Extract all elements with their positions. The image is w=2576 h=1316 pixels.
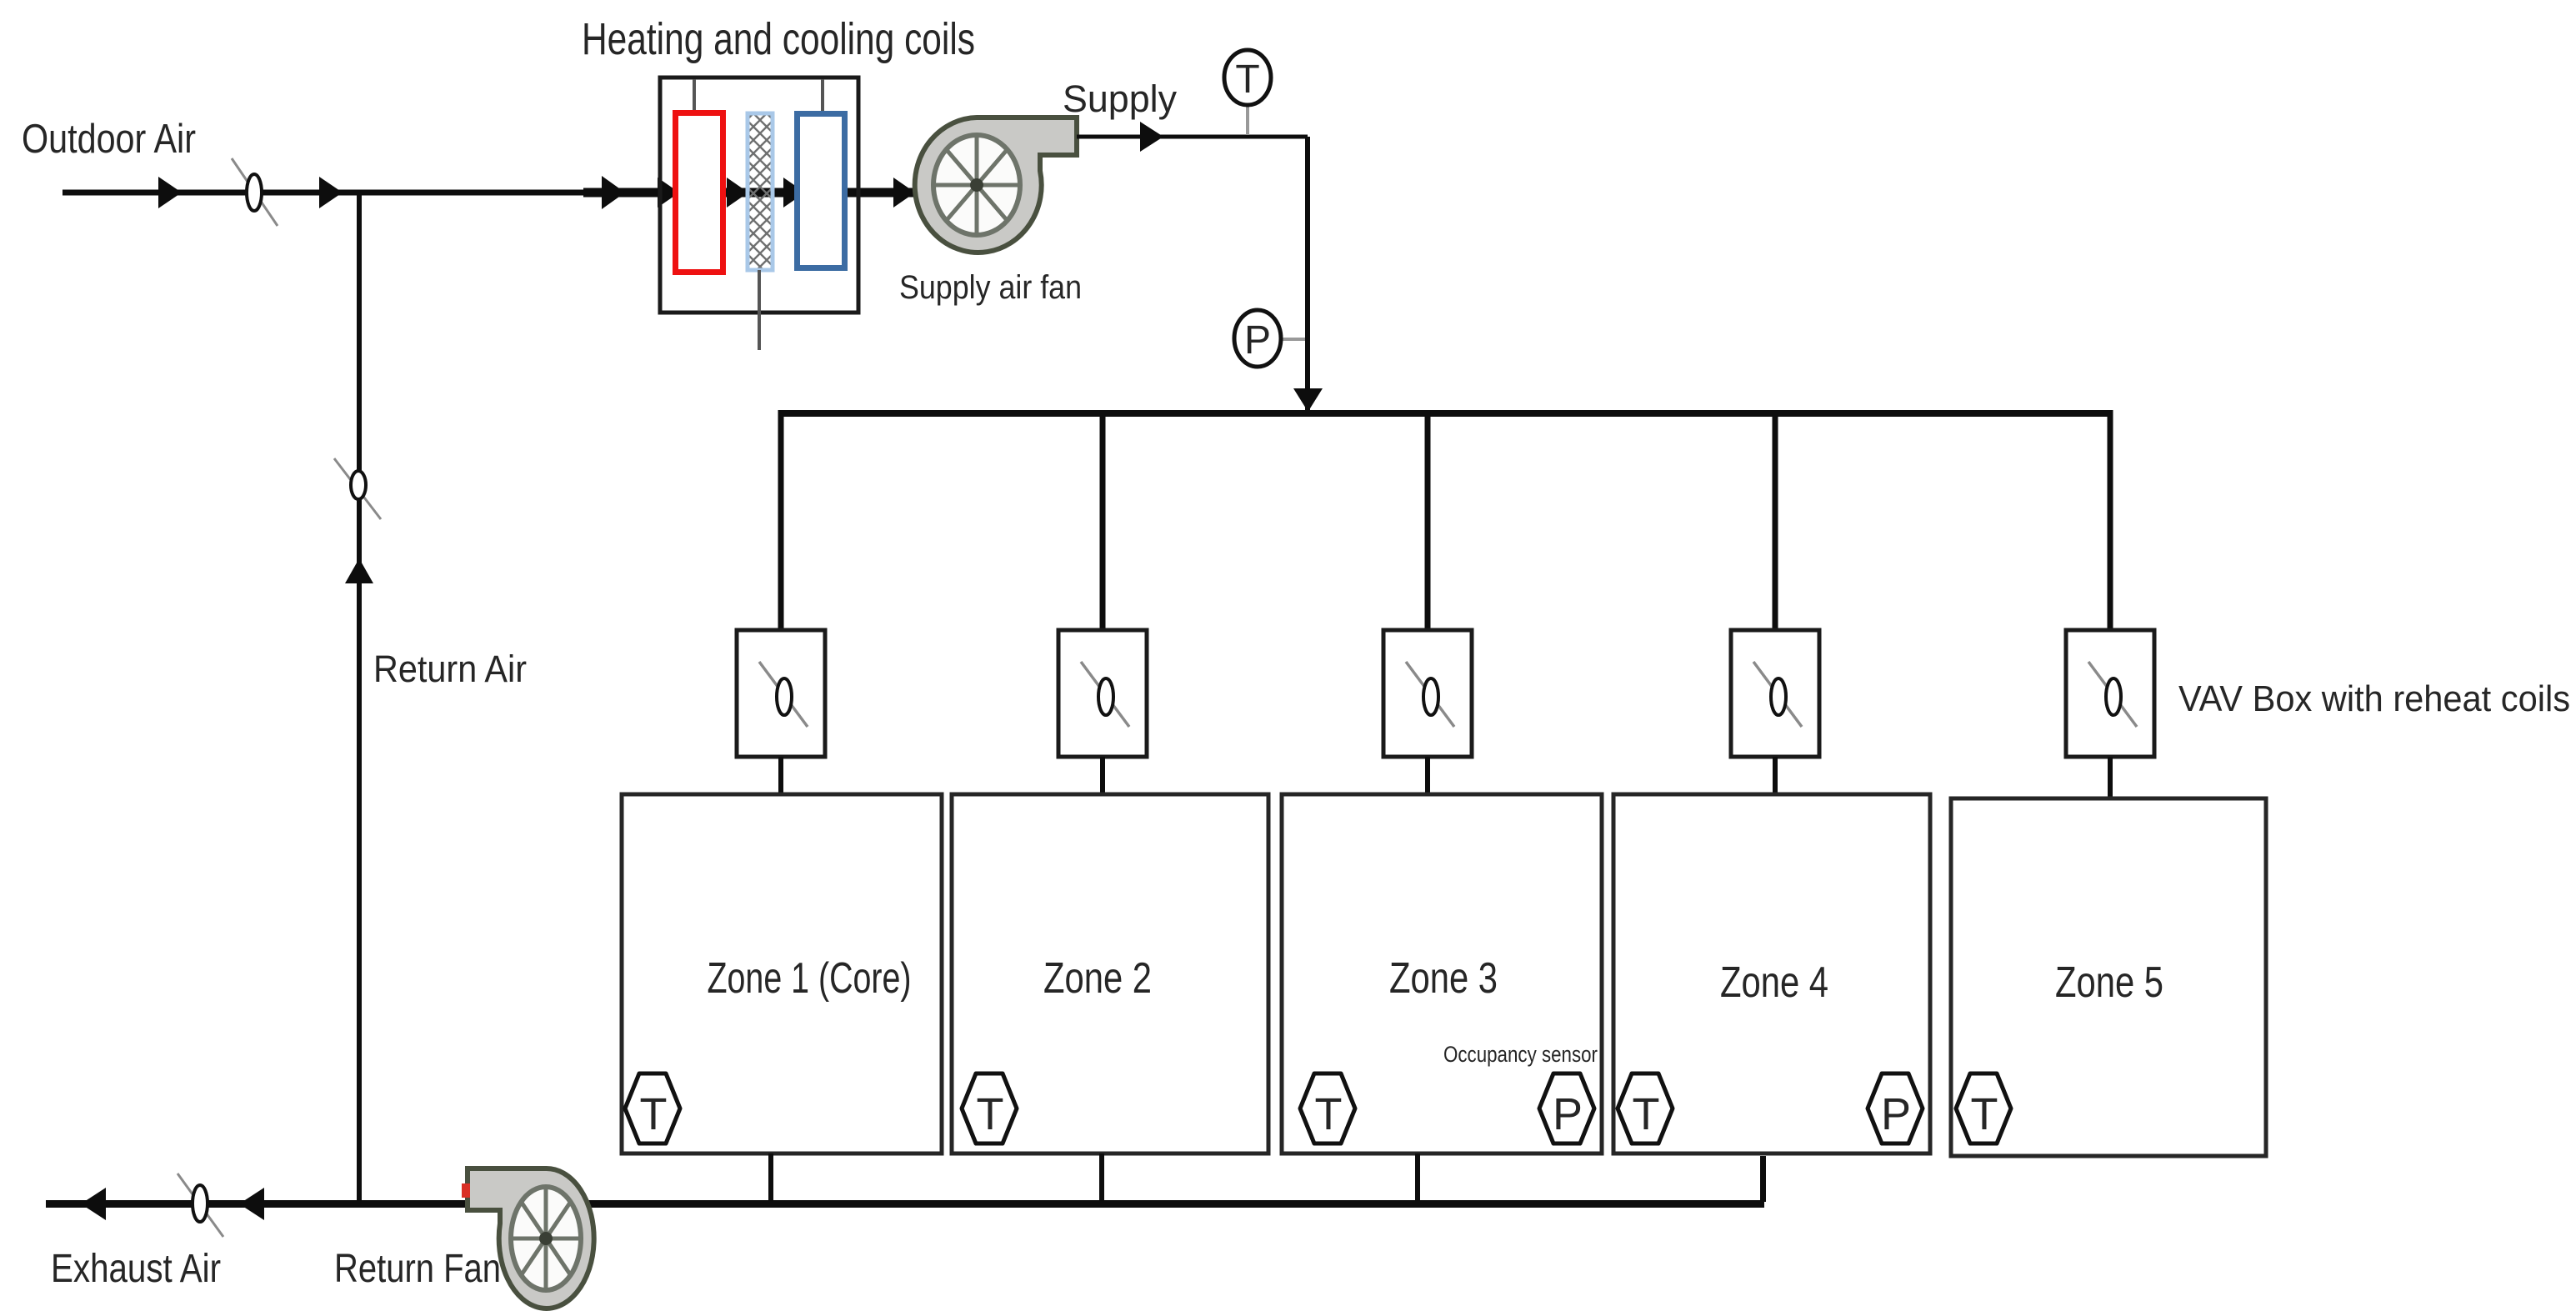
VAV box 5 bbox=[2066, 630, 2154, 757]
P sensor zone3 (hexagon) bbox=[1539, 1073, 1594, 1143]
svg-text:T: T bbox=[1971, 1089, 1998, 1139]
wire VAV2 to zone2 bbox=[1100, 757, 1105, 795]
pipe stub above heating coil bbox=[693, 79, 696, 111]
arrowhead duct 2 (inside box) bbox=[658, 178, 679, 208]
zone 5 box bbox=[1951, 798, 2266, 1156]
arrowhead supply bbox=[1140, 122, 1163, 152]
svg-text:Return Fan: Return Fan bbox=[334, 1247, 501, 1291]
damper exhaust bbox=[178, 1173, 223, 1237]
arrowhead duct 1 bbox=[602, 176, 625, 209]
VAV box 1 bbox=[737, 630, 825, 757]
svg-text:Occupancy sensor: Occupancy sensor bbox=[1443, 1042, 1598, 1067]
svg-text:Zone 1 (Core): Zone 1 (Core) bbox=[708, 954, 912, 1003]
svg-text:Exhaust Air: Exhaust Air bbox=[51, 1247, 221, 1291]
VAV box 3 bbox=[1383, 630, 1472, 757]
wire drop to VAV3 bbox=[1425, 417, 1431, 630]
wire duct thick into coil box bbox=[583, 188, 921, 198]
wire zone2 return drop bbox=[1099, 1153, 1104, 1202]
return fan wheel bbox=[511, 1187, 581, 1290]
T sensor zone2 (hexagon) bbox=[962, 1073, 1017, 1143]
arrowhead into header bbox=[1293, 388, 1323, 412]
svg-text:T: T bbox=[1235, 58, 1259, 102]
wire drop to VAV1 bbox=[778, 410, 784, 630]
zone 3 box bbox=[1282, 794, 1602, 1153]
return fan body bbox=[468, 1168, 594, 1308]
svg-text:Zone 3: Zone 3 bbox=[1389, 954, 1498, 1003]
filter (hatched) bbox=[748, 113, 773, 270]
wire supply line from fan bbox=[1077, 135, 1308, 139]
wire zone4 return drop bbox=[1760, 1156, 1766, 1202]
T sensor (supply) bbox=[1246, 105, 1249, 135]
pipe stub above cooling coil bbox=[821, 79, 824, 111]
arrowhead duct 3 (before filter) bbox=[727, 178, 748, 208]
wire return-air vertical bbox=[357, 193, 362, 1203]
wire outdoor-air horizontal bbox=[63, 190, 596, 196]
AHU coil box U1 bbox=[660, 78, 858, 313]
pipe stub below filter bbox=[758, 270, 761, 350]
zone 4 box bbox=[1613, 794, 1930, 1153]
wire drop to VAV2 bbox=[1100, 417, 1106, 630]
damper return-air bbox=[334, 458, 381, 519]
T sensor zone5 (hexagon) bbox=[1956, 1073, 2011, 1143]
heating coil (red) bbox=[676, 113, 723, 273]
svg-text:Zone 4: Zone 4 bbox=[1720, 958, 1828, 1007]
supply air fan body bbox=[915, 118, 1077, 253]
svg-text:Zone 2: Zone 2 bbox=[1043, 954, 1152, 1003]
svg-text:Supply air fan: Supply air fan bbox=[899, 269, 1082, 306]
svg-text:Heating and cooling coils: Heating and cooling coils bbox=[582, 14, 975, 64]
P sensor (supply) bbox=[1281, 338, 1305, 341]
wire VAV5 to zone5 bbox=[2108, 757, 2113, 799]
arrowhead duct 4 (before cooling coil) bbox=[783, 178, 805, 208]
arrowhead duct 5 (into fan) bbox=[893, 178, 915, 208]
svg-text:T: T bbox=[1633, 1089, 1660, 1139]
arrowhead outdoor 2 bbox=[319, 177, 343, 208]
svg-text:T: T bbox=[1315, 1089, 1343, 1139]
return fan red tick bbox=[462, 1183, 470, 1198]
svg-text:T: T bbox=[977, 1089, 1004, 1139]
wire drop to VAV4 bbox=[1773, 417, 1778, 630]
zone 1 box bbox=[622, 794, 942, 1153]
svg-text:Zone 5: Zone 5 bbox=[2055, 958, 2163, 1007]
svg-text:P: P bbox=[1881, 1089, 1911, 1139]
supply air fan wheel bbox=[933, 135, 1020, 235]
svg-text:P: P bbox=[1553, 1089, 1583, 1139]
VAV box 2 bbox=[1058, 630, 1147, 757]
T sensor zone3 (hexagon) bbox=[1300, 1073, 1355, 1143]
svg-text:Outdoor Air: Outdoor Air bbox=[22, 117, 196, 162]
svg-text:Supply: Supply bbox=[1063, 78, 1177, 120]
T sensor zone4 (hexagon) bbox=[1618, 1073, 1673, 1143]
T sensor zone1 (hexagon) bbox=[625, 1073, 680, 1143]
damper OA (ellipse + slash) bbox=[232, 158, 278, 226]
svg-text:VAV Box with reheat coils: VAV Box with reheat coils bbox=[2178, 678, 2570, 719]
wire return main line bbox=[46, 1200, 1764, 1208]
arrowhead exhaust 2 bbox=[239, 1188, 264, 1220]
wire VAV4 to zone4 bbox=[1773, 757, 1778, 795]
VAV box 4 bbox=[1731, 630, 1819, 757]
svg-text:T: T bbox=[640, 1089, 668, 1139]
svg-text:P: P bbox=[1244, 318, 1271, 363]
P sensor zone4 (hexagon) bbox=[1868, 1073, 1923, 1143]
wire supply header bbox=[778, 410, 2113, 417]
arrowhead exhaust 1 bbox=[81, 1188, 106, 1220]
wire drop to VAV5 bbox=[2108, 410, 2113, 630]
arrowhead outdoor 1 bbox=[158, 177, 182, 208]
cooling coil (blue) bbox=[798, 114, 845, 268]
wire VAV3 to zone3 bbox=[1425, 757, 1430, 795]
arrowhead return-air up bbox=[345, 558, 373, 583]
wire supply drop to header bbox=[1305, 137, 1310, 412]
wire zone3 return drop bbox=[1415, 1153, 1420, 1202]
svg-text:Return Air: Return Air bbox=[373, 648, 527, 690]
wire zone1 return drop bbox=[768, 1153, 773, 1202]
wire VAV1 to zone1 bbox=[778, 757, 783, 795]
zone 2 box bbox=[952, 794, 1268, 1153]
